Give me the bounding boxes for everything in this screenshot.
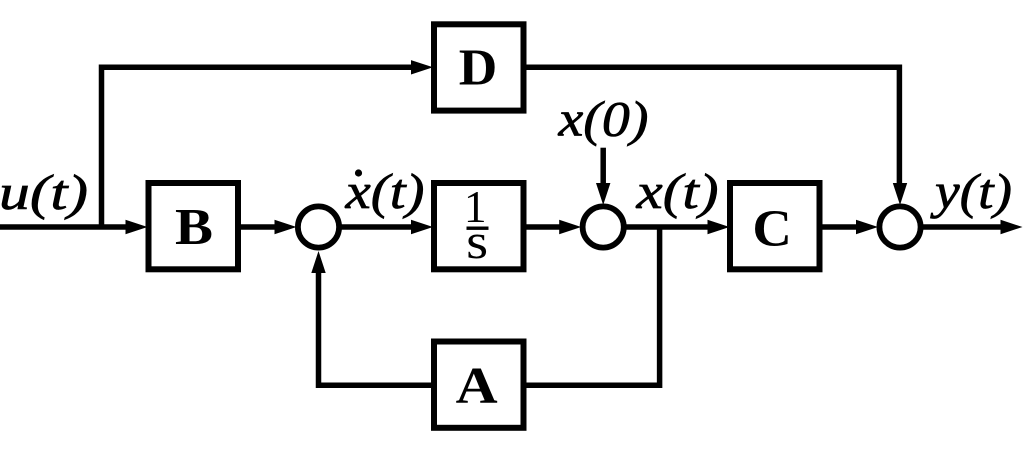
svg-text:s: s <box>466 213 488 269</box>
svg-text:B: B <box>175 199 213 256</box>
svg-text:x(0): x(0) <box>557 91 648 147</box>
svg-text:u(t): u(t) <box>0 164 88 220</box>
svg-text:x(t): x(t) <box>635 163 718 219</box>
svg-text:D: D <box>459 40 498 97</box>
svg-text:C: C <box>752 200 792 257</box>
svg-text:A: A <box>456 358 498 415</box>
svg-text:y(t): y(t) <box>929 163 1012 219</box>
